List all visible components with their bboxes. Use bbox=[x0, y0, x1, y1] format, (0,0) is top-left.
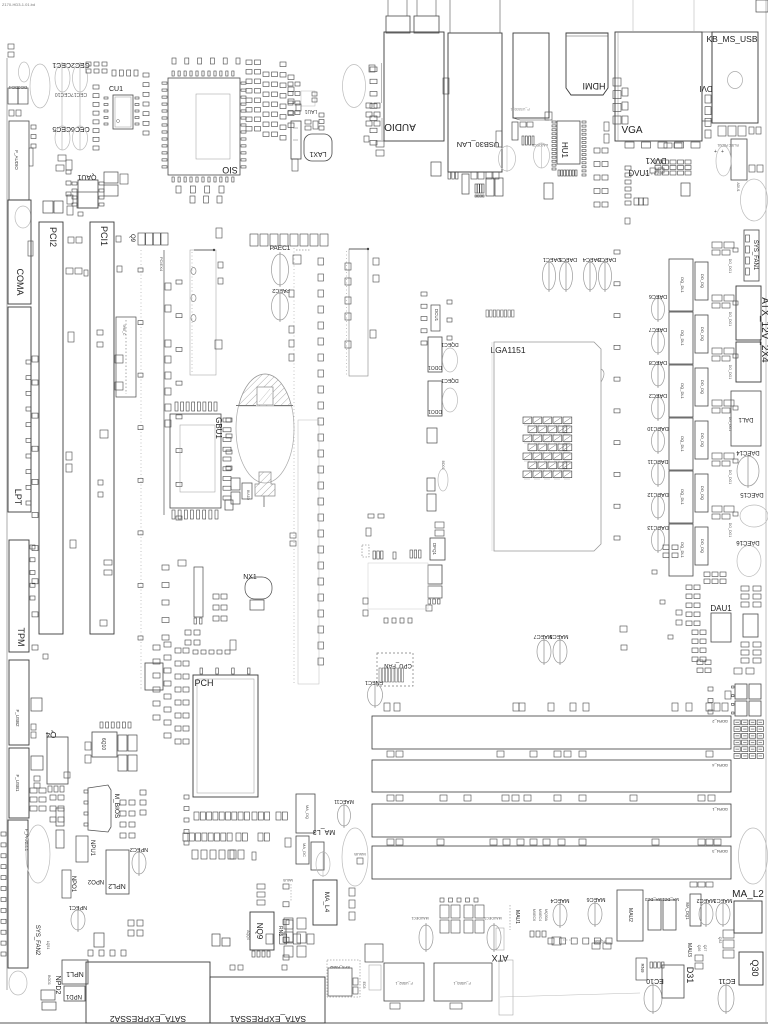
parts above sata1 bbox=[212, 934, 220, 946]
svg-text:DAU1: DAU1 bbox=[710, 604, 732, 613]
svg-text:COMA: COMA bbox=[15, 269, 25, 296]
parts right of SIO cluster bbox=[246, 60, 252, 65]
svg-text:LPT: LPT bbox=[13, 489, 23, 506]
svg-text:MAUDEC3: MAUDEC3 bbox=[484, 916, 501, 920]
svg-text:MA_L4: MA_L4 bbox=[323, 892, 330, 913]
svg-text:MA_DC: MA_DC bbox=[302, 843, 307, 857]
audio jack AUDIO bbox=[384, 32, 444, 141]
svg-text:HU1: HU1 bbox=[560, 142, 569, 159]
svg-text:NQ9: NQ9 bbox=[255, 923, 264, 940]
svg-text:MA_DQ1: MA_DQ1 bbox=[685, 902, 690, 920]
svg-text:MA_DQ: MA_DQ bbox=[305, 805, 310, 819]
svg-text:Q30: Q30 bbox=[750, 959, 760, 976]
pci slot PCI2 bbox=[39, 222, 63, 634]
svg-text:TPM: TPM bbox=[16, 628, 26, 647]
column of caps below VGA bbox=[625, 166, 631, 170]
svg-text:DO_DQ: DO_DQ bbox=[700, 274, 705, 288]
svg-text:DAEC15: DAEC15 bbox=[740, 491, 764, 497]
svg-text:AQQ4: AQQ4 bbox=[246, 930, 250, 940]
vga bottom pins bbox=[625, 142, 634, 148]
svg-text:F_USB1: F_USB1 bbox=[15, 774, 20, 792]
svg-text:LAX1: LAX1 bbox=[309, 150, 326, 157]
svg-text:SYS_FAN1: SYS_FAN1 bbox=[752, 240, 758, 271]
vertical part near P_USB30 bbox=[512, 122, 518, 140]
parts row between dimm 3-4 bbox=[387, 839, 394, 845]
parts left of battery bbox=[226, 418, 232, 422]
lan magnetics ghost circles bbox=[499, 146, 516, 171]
chip NPD1 bbox=[64, 986, 85, 1001]
svg-text:DDR4_4: DDR4_4 bbox=[712, 763, 728, 768]
parts row below socket bbox=[384, 618, 388, 623]
parts between NX1 and PCH bbox=[213, 594, 219, 599]
row of jumpers above PCIEX16 bbox=[250, 234, 258, 246]
svg-text:BOO1: BOO1 bbox=[47, 975, 51, 985]
lan controller GBU1 bbox=[170, 414, 221, 508]
svg-text:DO_DO1: DO_DO1 bbox=[728, 417, 732, 431]
usb hub chip HU1 bbox=[557, 121, 580, 164]
box left of PCH bbox=[145, 663, 163, 690]
parts along dashed trace bbox=[289, 290, 294, 297]
parts right edge x370 y512 bbox=[368, 514, 374, 518]
svg-text:Q26: Q26 bbox=[697, 945, 701, 952]
regulator NQ9 bbox=[250, 912, 274, 950]
transistors Q24 Q32 bbox=[723, 930, 734, 938]
fets below MA_L3 bbox=[296, 836, 309, 864]
parts around CU1 bbox=[93, 85, 99, 89]
svg-text:MAU3: MAU3 bbox=[686, 943, 692, 957]
vrm chokes column bbox=[669, 259, 693, 311]
parts above sata2 bbox=[88, 950, 93, 956]
svg-text:MAU1: MAU1 bbox=[514, 910, 520, 924]
svg-text:BIA1D: BIA1D bbox=[246, 490, 250, 501]
dashed column right of PCI1 bbox=[140, 250, 142, 690]
tpm area boxes left edge bbox=[31, 698, 42, 711]
svg-text:DDR4_3: DDR4_3 bbox=[712, 849, 728, 854]
resistor pack RN9 bbox=[636, 958, 647, 980]
svg-text:MA_L2: MA_L2 bbox=[732, 889, 764, 900]
svg-text:RN9: RN9 bbox=[640, 963, 645, 972]
svg-text:VGA: VGA bbox=[621, 125, 642, 136]
svg-text:NPL1: NPL1 bbox=[66, 970, 84, 977]
svg-text:DQ_DL1: DQ_DL1 bbox=[680, 436, 685, 452]
vga connector VGA bbox=[615, 32, 702, 141]
svg-text:GBU1: GBU1 bbox=[214, 417, 223, 439]
inductor MA_L3 bbox=[296, 794, 315, 833]
mounting hole left bottom bbox=[26, 825, 50, 883]
svg-text:RLJEC PADU1: RLJEC PADU1 bbox=[717, 143, 739, 147]
svg-text:PCI2: PCI2 bbox=[48, 227, 58, 247]
svg-text:SATA_EXPRESSA2: SATA_EXPRESSA2 bbox=[110, 1014, 186, 1024]
svg-text:MAUB: MAUB bbox=[354, 852, 366, 857]
parts above SIO bbox=[172, 58, 176, 64]
diode box DDC1a bbox=[428, 337, 442, 372]
internal usb headers F_USB bbox=[384, 963, 424, 1001]
ghost circles top left bbox=[19, 62, 30, 82]
svg-text:BD01: BD01 bbox=[441, 461, 445, 470]
svg-text:D31: D31 bbox=[685, 967, 695, 984]
right edge parts rows bbox=[741, 586, 749, 591]
svg-text:CEC1?CEC10: CEC1?CEC10 bbox=[55, 91, 87, 97]
svg-text:DO_DQ: DO_DQ bbox=[700, 539, 705, 553]
parts DVD bbox=[435, 522, 444, 528]
vrm driver clusters bbox=[712, 242, 722, 248]
parts right of PCIEX1_2 bbox=[373, 258, 379, 265]
keyboard mouse usb stack KB_MS_USB bbox=[712, 32, 758, 123]
pciex1 slot PCIEX1_2 bbox=[349, 249, 368, 376]
svg-text:6Q10: 6Q10 bbox=[100, 738, 106, 750]
svg-text:DQ_DL1: DQ_DL1 bbox=[680, 489, 685, 505]
svg-text:DQ_DL1: DQ_DL1 bbox=[680, 277, 685, 293]
dimm slot DDR4_1 bbox=[372, 804, 731, 837]
hdmi connector HDMI bbox=[566, 33, 608, 95]
row of parts EC bbox=[634, 198, 639, 205]
svg-text:SYS_FAN2: SYS_FAN2 bbox=[34, 925, 40, 956]
svg-text:MAU5: MAU5 bbox=[283, 878, 293, 882]
svg-text:DO_DO1: DO_DO1 bbox=[728, 470, 732, 484]
svg-text:DDR4_2: DDR4_2 bbox=[712, 719, 728, 724]
pci slot PCI1 bbox=[90, 222, 114, 634]
transistor Q30 bbox=[739, 952, 763, 985]
usb header F_USB2 bbox=[9, 660, 29, 745]
parts below DIMM4 bbox=[690, 882, 697, 887]
battery bottom tab bbox=[255, 472, 275, 496]
transistors below DFQ1 bbox=[428, 565, 442, 584]
parts column right bbox=[369, 65, 375, 72]
svg-text:DAEC16: DAEC16 bbox=[736, 539, 760, 545]
memory pwm MAU2 bbox=[617, 890, 643, 941]
svg-text:SATA_EXPRESSA1: SATA_EXPRESSA1 bbox=[230, 1014, 306, 1024]
row of pads above socket bbox=[486, 310, 489, 317]
svg-text:DDR4_1: DDR4_1 bbox=[712, 807, 728, 812]
svg-text:USB30_LAN: USB30_LAN bbox=[457, 140, 500, 149]
svg-text:Z170-HD3-1.01.bd: Z170-HD3-1.01.bd bbox=[2, 2, 35, 7]
svg-text:DO_DQ: DO_DQ bbox=[700, 486, 705, 500]
transistor grid right of QQ10 bbox=[118, 735, 127, 751]
svg-text:EC10: EC10 bbox=[646, 977, 664, 984]
svg-text:KB_MS_USB: KB_MS_USB bbox=[706, 34, 757, 44]
small parts column x615 bbox=[614, 250, 620, 254]
svg-text:LQ51: LQ51 bbox=[46, 941, 50, 950]
mounting hole right of dimms bbox=[739, 828, 768, 884]
svg-text:DQ_DL1: DQ_DL1 bbox=[680, 330, 685, 346]
svg-text:LGA1151: LGA1151 bbox=[490, 345, 526, 355]
svg-text:DO_DO1: DO_DO1 bbox=[728, 365, 732, 379]
svg-text:M_BIOS: M_BIOS bbox=[113, 794, 120, 819]
parts cluster near panel bbox=[30, 788, 37, 793]
parts above PCI slots bbox=[43, 201, 53, 213]
parts above DIMM1 bbox=[384, 703, 390, 711]
battery holder BAT1 bbox=[236, 374, 294, 483]
svg-text:MAEC6: MAEC6 bbox=[587, 896, 606, 902]
parts between VGA and HDMI bbox=[613, 78, 621, 86]
ghost circle bottom left bbox=[9, 971, 27, 995]
parts left of QAU1 bbox=[58, 155, 66, 161]
platform controller hub PCH bbox=[193, 675, 258, 797]
parts above Q groups bbox=[440, 898, 444, 902]
transistor DFQ1 bbox=[430, 538, 445, 560]
cap ghost near MA_L4 bbox=[316, 852, 330, 876]
svg-text:QAU1: QAU1 bbox=[77, 173, 96, 180]
fan header CPU_FAN bbox=[377, 653, 413, 686]
parts right of sysfan2 bbox=[365, 944, 383, 962]
svg-text:MA_L3: MA_L3 bbox=[313, 828, 335, 835]
serial header COMA bbox=[8, 200, 31, 304]
svg-text:PCI1: PCI1 bbox=[99, 226, 109, 246]
parts below PCH rows bbox=[194, 812, 199, 820]
svg-text:CPU_FAN: CPU_FAN bbox=[384, 662, 412, 668]
svg-text:+: + bbox=[714, 149, 717, 155]
svg-text:NPL2: NPL2 bbox=[108, 882, 126, 889]
mounting hole near SIO bbox=[343, 65, 366, 108]
svg-text:MAEC3: MAEC3 bbox=[550, 633, 569, 639]
parts left edge of keepout bbox=[363, 598, 368, 604]
capacitors left of AUDIO bbox=[376, 141, 384, 147]
vtt grid right edge bbox=[734, 720, 740, 725]
pcie x16 slot PCIEX16 bbox=[190, 250, 216, 375]
parts column left of socket bbox=[421, 292, 427, 296]
diode box DDC1b bbox=[428, 381, 442, 416]
board right edge bbox=[765, 0, 767, 1023]
svg-text:DVI: DVI bbox=[699, 84, 712, 93]
sio pins bbox=[162, 82, 167, 84]
regulator QQ10 bbox=[92, 732, 117, 757]
bios flash M_BIOS bbox=[88, 785, 111, 832]
parts below bbox=[41, 990, 55, 1000]
svg-text:DQ_DL1: DQ_DL1 bbox=[680, 383, 685, 399]
svg-text:NPO2: NPO2 bbox=[87, 878, 104, 884]
svg-text:DCU1: DCU1 bbox=[434, 309, 439, 322]
inductor DAL1 bbox=[731, 391, 761, 446]
mounting hole top right bbox=[741, 179, 768, 221]
column of caps mid board bbox=[318, 258, 324, 265]
svg-text:RN3: RN3 bbox=[277, 926, 283, 936]
parts column left of MA_L4 bbox=[283, 884, 289, 889]
atx 12v power connector ATX_12V_2X4 bbox=[736, 286, 761, 340]
parts row right of BN3 bbox=[548, 938, 554, 944]
sata express connector SATA_EXPRESSA2 bbox=[86, 962, 210, 1023]
svg-text:Q9: Q9 bbox=[129, 234, 135, 243]
svg-text:MAUDEC1: MAUDEC1 bbox=[411, 916, 428, 920]
svg-text:F_USB3_1: F_USB3_1 bbox=[453, 981, 470, 985]
dimm slot DDR4_4 bbox=[372, 760, 731, 792]
svg-text:LAU1: LAU1 bbox=[305, 108, 318, 114]
dvi port column DVI bbox=[702, 32, 712, 121]
chip NPL2 bbox=[106, 850, 129, 894]
mount ghost circles right bbox=[740, 505, 768, 527]
svg-text:DVU1: DVU1 bbox=[628, 169, 650, 178]
parts NPD area bbox=[128, 920, 134, 926]
svg-text:MQ30A: MQ30A bbox=[544, 909, 548, 922]
svg-text:Q27: Q27 bbox=[703, 945, 707, 952]
parts grid right of NQ9 bbox=[284, 918, 293, 929]
pins below KB_MS_USB bbox=[718, 126, 726, 136]
transistor grid Q group B bbox=[464, 905, 473, 918]
parts inside LPT right bbox=[26, 360, 31, 364]
svg-text:DO_DQ: DO_DQ bbox=[700, 433, 705, 447]
top right corner box bbox=[756, 0, 768, 12]
board left edge bbox=[6, 58, 8, 990]
parts right of PCH bbox=[285, 838, 291, 847]
svg-text:NPU1: NPU1 bbox=[89, 840, 95, 857]
svg-text:SYS_FAN2: SYS_FAN2 bbox=[329, 965, 350, 970]
parallel header LPT bbox=[8, 307, 31, 512]
svg-text:DDO1: DDO1 bbox=[428, 364, 442, 370]
parts below USB30_LAN bbox=[431, 162, 441, 176]
socket keepout rect bbox=[368, 563, 428, 609]
parts column left of PCH bbox=[162, 565, 169, 570]
svg-text:DQEC1: DQEC1 bbox=[441, 341, 458, 347]
fan header SYS_FAN1 bbox=[744, 230, 759, 281]
m2 slot outline bbox=[298, 420, 319, 684]
svg-text:MXEC6: MXEC6 bbox=[532, 909, 536, 921]
header box SH8 bbox=[116, 317, 136, 397]
usb header F_USB1 bbox=[9, 748, 29, 818]
svg-text:Q32: Q32 bbox=[718, 937, 722, 944]
svg-text:PCIEX4: PCIEX4 bbox=[159, 257, 164, 272]
svg-text:AUDIO: AUDIO bbox=[384, 121, 416, 132]
svg-text:FQ30B: FQ30B bbox=[594, 939, 606, 943]
m2 top corner parts bbox=[293, 255, 301, 264]
svg-text:MAU2: MAU2 bbox=[627, 908, 633, 922]
svg-text:DO_DO1: DO_DO1 bbox=[728, 259, 732, 273]
fet grid right of HU1 bbox=[594, 148, 600, 153]
parts row between dimm 2-3 bbox=[387, 795, 394, 801]
parts left of m2 bbox=[290, 533, 296, 538]
svg-text:DAL1: DAL1 bbox=[738, 416, 754, 422]
svg-text:EC8: EC8 bbox=[362, 982, 366, 989]
svg-text:ADU1: ADU1 bbox=[736, 182, 740, 191]
vga right pins bbox=[705, 95, 711, 103]
boxes left edge of socket zone bbox=[427, 478, 435, 491]
socket pad array bbox=[523, 417, 532, 424]
svg-text:F_USB2_1: F_USB2_1 bbox=[395, 981, 412, 985]
svg-text:F_USB2: F_USB2 bbox=[15, 709, 20, 727]
mount ghost circle center bottom bbox=[342, 828, 368, 886]
svg-text:NX1: NX1 bbox=[243, 574, 257, 581]
dense columns left of PCH bbox=[153, 645, 160, 650]
svg-text:ATX_12V_2X4: ATX_12V_2X4 bbox=[759, 297, 768, 363]
svg-text:DO_DQ: DO_DQ bbox=[700, 327, 705, 341]
crystal LAX1 bbox=[304, 134, 332, 161]
svg-text:DDO1: DDO1 bbox=[428, 408, 442, 414]
usb lan connector USB30_LAN bbox=[448, 33, 502, 172]
svg-text:MA_DC2MA_DC3: MA_DC2MA_DC3 bbox=[644, 897, 679, 902]
svg-text:NPD1: NPD1 bbox=[65, 993, 82, 999]
svg-text:CU1: CU1 bbox=[109, 86, 123, 93]
svg-text:SIO: SIO bbox=[222, 165, 238, 175]
svg-text:DO_DO1: DO_DO1 bbox=[728, 312, 732, 326]
parts inside PCI1 bbox=[97, 330, 103, 335]
svg-text:ATX: ATX bbox=[492, 953, 509, 963]
parts below SIO bbox=[176, 186, 181, 193]
super io chip SIO bbox=[168, 78, 240, 175]
svg-text:DAEC14: DAEC14 bbox=[736, 449, 760, 455]
board bottom edge bbox=[0, 1022, 768, 1024]
sata express connector SATA_EXPRESSA1 bbox=[210, 977, 325, 1023]
caps row left of HU1 bbox=[522, 136, 524, 145]
small box below DDC1 bbox=[427, 428, 437, 443]
svg-text:PAEC2: PAEC2 bbox=[272, 287, 290, 293]
parts between slots bbox=[66, 268, 73, 274]
front panel header F_PANEL bbox=[8, 820, 28, 968]
parts row between dimm 1-2 bbox=[387, 751, 394, 757]
svg-text:DAEC1: DAEC1 bbox=[543, 256, 561, 262]
svg-text:PAEC1: PAEC1 bbox=[270, 245, 291, 252]
resistor row bbox=[650, 962, 653, 968]
caps column MAU area bbox=[349, 888, 355, 896]
svg-text:+: + bbox=[721, 149, 724, 155]
svg-text:DVX1: DVX1 bbox=[645, 156, 666, 165]
front audio header F_AUDIO bbox=[9, 121, 29, 200]
box below DVX bbox=[681, 183, 690, 196]
dimm slot DDR4_2 bbox=[372, 716, 731, 749]
svg-text:HDMI: HDMI bbox=[583, 81, 606, 91]
parts right of Q4 bbox=[85, 742, 91, 750]
parts right of QAU1 bbox=[104, 172, 118, 183]
resistor BN3 bbox=[552, 937, 561, 945]
svg-text:DQ_DL1: DQ_DL1 bbox=[680, 542, 685, 558]
parts right of lan chip bbox=[749, 165, 755, 172]
connector left of LAX1 bbox=[291, 121, 301, 159]
svg-text:EC11: EC11 bbox=[718, 977, 735, 984]
svg-text:PCH: PCH bbox=[194, 678, 213, 688]
part U_Q8 bbox=[544, 183, 553, 199]
fan header SYS_FAN2 right bbox=[327, 960, 360, 997]
tpm header TPM bbox=[9, 540, 29, 652]
svg-text:DO_DO1: DO_DO1 bbox=[728, 523, 732, 537]
vrm fet rects column bbox=[695, 262, 708, 300]
transistor grid Q group A bbox=[440, 905, 449, 918]
pwm area small parts bbox=[704, 572, 710, 577]
power fets bottom right DOA bbox=[735, 684, 747, 699]
svg-text:P_USB30_1: P_USB30_1 bbox=[510, 107, 529, 111]
svg-text:F_AUDIO: F_AUDIO bbox=[14, 150, 19, 170]
column right of PCIEX4 bbox=[176, 280, 182, 284]
lan chip block bbox=[731, 139, 747, 180]
dimm slot DDR4_3 bbox=[372, 846, 731, 879]
usb3 header block P_USB30_1 bbox=[513, 33, 549, 118]
svg-text:DFQ1: DFQ1 bbox=[432, 543, 437, 555]
svg-text:DQEC1: DQEC1 bbox=[441, 377, 458, 383]
cap tall left of NX1 bbox=[194, 567, 203, 617]
chip DCU1 bbox=[431, 305, 440, 331]
svg-text:DO_DQ: DO_DQ bbox=[700, 380, 705, 394]
svg-text:DAEC5: DAEC5 bbox=[559, 256, 577, 262]
regulator MAU3 D31 bbox=[662, 965, 684, 998]
inductor MA_L4 bbox=[313, 880, 337, 925]
header near FNEC1 bbox=[362, 545, 369, 557]
svg-text:9H8_C: 9H8_C bbox=[122, 325, 126, 336]
svg-text:MXEC4: MXEC4 bbox=[538, 909, 542, 921]
chip NPL1 bbox=[62, 960, 88, 984]
svg-text:DAEC3: DAEC3 bbox=[598, 256, 616, 262]
